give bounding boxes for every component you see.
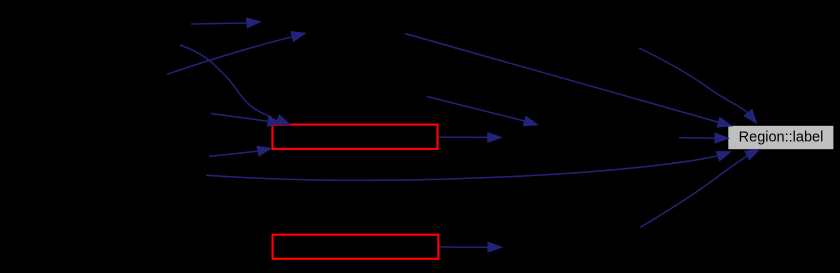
svg-text:Region::label: Region::label [739,130,824,146]
